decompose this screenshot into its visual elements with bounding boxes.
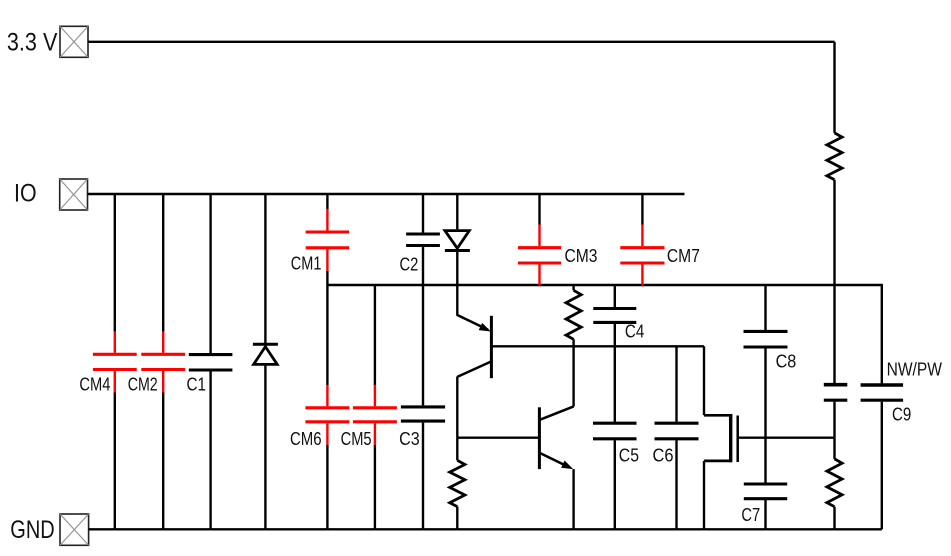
- svg-text:CM5: CM5: [341, 429, 372, 449]
- label C3: [399, 429, 420, 449]
- svg-text:NW/PW: NW/PW: [887, 359, 942, 379]
- pad 3.3V: [60, 26, 88, 57]
- svg-text:C5: C5: [619, 445, 639, 465]
- wire base rail to Q2 collector: [572, 346, 574, 406]
- wire C1 to GND: [209, 372, 211, 530]
- label CM3: [565, 246, 598, 266]
- wire IO to CM4: [114, 194, 116, 332]
- wire base rail to MOSFET drain: [703, 346, 705, 415]
- svg-text:C1: C1: [187, 374, 207, 394]
- net label 3.3 V: [7, 28, 58, 56]
- wire R_B to GND: [456, 507, 458, 530]
- diode D1 (GND to IO clamp): [253, 344, 278, 364]
- svg-text:3.3 V: 3.3 V: [7, 28, 58, 56]
- svg-text:CM7: CM7: [667, 246, 700, 266]
- label C6: [653, 445, 674, 465]
- wire CM4 to GND: [114, 393, 116, 530]
- wire internal rail to Q1 emitter: [456, 285, 458, 316]
- wire IO to CM2: [162, 194, 164, 332]
- svg-text:CM6: CM6: [290, 429, 322, 449]
- wire IO rail: [88, 193, 685, 195]
- capacitor CM1: [306, 209, 349, 271]
- capacitor CM5: [353, 385, 397, 445]
- capacitor CM4: [93, 331, 137, 392]
- wire MOSFET gate lead: [739, 437, 835, 439]
- wire CM6 to GND: [326, 445, 328, 530]
- label C5: [619, 445, 639, 465]
- wire C5 to GND: [614, 440, 616, 529]
- pad IO: [60, 179, 88, 210]
- wire IO to diode D1: [264, 194, 266, 343]
- wire IO to diode D2: [456, 194, 458, 229]
- svg-text:IO: IO: [14, 180, 37, 208]
- wire CM2 to GND: [162, 393, 164, 530]
- wire IO to C2: [422, 194, 424, 233]
- svg-text:C7: C7: [741, 505, 760, 525]
- wire NW/PW cap to gate node: [833, 402, 835, 438]
- label NW/PW: [887, 359, 942, 379]
- transistor Q1 (PNP): [457, 315, 491, 378]
- svg-text:CM3: CM3: [565, 246, 598, 266]
- resistor R_B: [450, 460, 465, 506]
- wire IO to CM7: [641, 194, 643, 225]
- capacitor CM7: [620, 224, 664, 285]
- transistor M1 (MOSFET): [704, 414, 738, 462]
- wire node to resistor R_B: [456, 438, 458, 461]
- wire internal rail to C9: [881, 284, 883, 384]
- wire base rail (node N2): [491, 345, 704, 347]
- capacitor CM3: [518, 224, 561, 285]
- wire gate node to resistor R_D: [833, 438, 835, 459]
- capacitor CM2: [141, 331, 185, 392]
- svg-text:GND: GND: [10, 516, 54, 544]
- svg-text:C6: C6: [653, 445, 674, 465]
- wire C9 to GND: [881, 402, 883, 530]
- wire C7 to GND: [764, 500, 766, 529]
- label CM5: [341, 429, 372, 449]
- wire internal rail (node N1): [327, 284, 881, 286]
- pad GND: [60, 514, 89, 545]
- wire internal rail to CM6: [326, 285, 328, 385]
- label C7: [741, 505, 760, 525]
- svg-text:CM4: CM4: [79, 374, 110, 394]
- label C1: [187, 374, 207, 394]
- svg-text:C2: C2: [400, 255, 419, 275]
- label CM1: [291, 254, 322, 274]
- wire C3 to GND: [422, 423, 424, 530]
- wire C8 to C7: [764, 349, 766, 483]
- svg-text:C3: C3: [399, 429, 420, 449]
- capacitor C8: [744, 331, 788, 347]
- wire D1 to GND: [264, 364, 266, 529]
- resistor R_C: [566, 290, 581, 339]
- resistor R_A (3.3V pull-up): [827, 133, 842, 180]
- wire IO to CM3: [538, 194, 540, 225]
- capacitor C5: [593, 423, 637, 439]
- capacitor C4: [593, 309, 636, 323]
- capacitor C3: [401, 407, 445, 421]
- svg-text:CM1: CM1: [291, 254, 322, 274]
- svg-text:C4: C4: [625, 322, 644, 342]
- wire 3.3V rail: [88, 42, 835, 133]
- svg-text:C8: C8: [776, 352, 797, 372]
- wire C4 to C5: [614, 324, 616, 422]
- wire GND rail: [89, 528, 882, 530]
- label CM4: [79, 374, 110, 394]
- capacitor C9: [861, 385, 904, 400]
- transistor Q2 (NPN): [539, 406, 573, 469]
- svg-text:C9: C9: [892, 405, 911, 425]
- capacitor CM6: [305, 385, 349, 445]
- wire internal rail to C4: [614, 285, 616, 307]
- wire internal rail to resistor R_C: [572, 285, 574, 290]
- wire Q2 base lead: [457, 437, 539, 439]
- capacitor C7: [744, 484, 787, 499]
- label CM2: [128, 374, 158, 394]
- wire R_D to GND: [833, 507, 835, 530]
- wire C6 to GND: [675, 440, 677, 529]
- wire MOSFET source to GND: [703, 461, 705, 529]
- wire Q2 emitter to GND: [572, 469, 574, 529]
- wire R_C to base rail: [572, 339, 574, 346]
- net label IO: [14, 180, 37, 208]
- wire Q1 collector down: [456, 377, 458, 438]
- label C8: [776, 352, 797, 372]
- wire IO to CM1: [326, 194, 328, 209]
- capacitor C1: [189, 355, 233, 370]
- wire CM5 to GND: [374, 445, 376, 530]
- wire D2 to internal rail: [456, 251, 458, 286]
- diode D2 (IO to rail clamp): [445, 231, 470, 251]
- label C2: [400, 255, 419, 275]
- wire IO to C1: [209, 194, 211, 353]
- wire base rail to C6: [675, 346, 677, 422]
- label CM6: [290, 429, 322, 449]
- wire internal rail to C3: [422, 285, 424, 405]
- wire CM1 to internal rail: [326, 271, 328, 285]
- label C4: [625, 322, 644, 342]
- wire internal rail to CM5: [374, 285, 376, 385]
- capacitor NW/PW (junction): [824, 385, 848, 401]
- capacitor C2: [406, 234, 440, 246]
- wire 3.3V drop to NW/PW cap: [833, 180, 835, 383]
- resistor R_D: [827, 459, 842, 507]
- wire C2 to internal rail: [422, 247, 424, 285]
- net label GND: [10, 516, 54, 544]
- wire internal rail to C8: [764, 285, 766, 330]
- label C9: [892, 405, 911, 425]
- svg-text:CM2: CM2: [128, 374, 158, 394]
- label CM7: [667, 246, 700, 266]
- capacitor C6: [655, 423, 699, 439]
